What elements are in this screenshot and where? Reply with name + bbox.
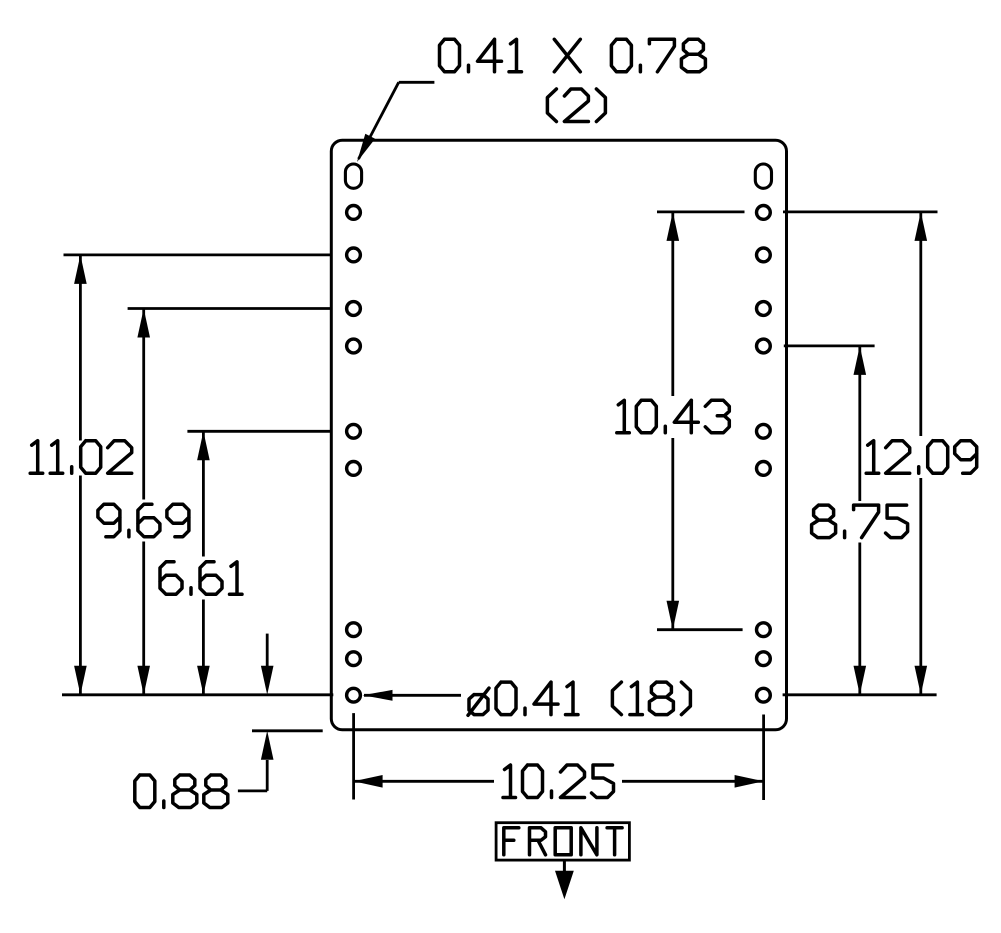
dim 11.02 arrow top — [74, 255, 87, 284]
hole left column row 8 — [347, 652, 361, 666]
extension line right row1 — [657, 210, 745, 213]
dim 9.69 text — [98, 504, 189, 537]
hole left column row 9 — [347, 688, 361, 702]
slot top-left 0.41 X 0.78 — [345, 164, 361, 188]
text 0.41 X 0.78 — [440, 39, 522, 72]
dim 8.75 arrow bottom — [854, 666, 867, 695]
extension line right row4 — [784, 344, 875, 347]
dim 6.61 arrow top — [197, 431, 210, 460]
extension line left row3 — [128, 307, 332, 310]
hole right column row 6 — [757, 462, 771, 476]
hole right column row 8 — [757, 652, 771, 666]
dim 10.43 line — [671, 212, 674, 396]
hole left column row 7 — [347, 623, 361, 637]
dim 12.09 arrow bottom — [915, 666, 928, 695]
dim 10.25 text — [503, 765, 614, 798]
dim 10.43 text — [617, 400, 730, 433]
dim 0.88 arrow lower — [266, 760, 269, 791]
dim 10.25 arrow left — [354, 775, 383, 788]
text dia 0.41 (18) — [468, 682, 578, 715]
FRONT box — [496, 823, 629, 860]
dim 10.25 line — [354, 780, 494, 783]
hole right column row 1 — [757, 206, 771, 220]
extension line 10.25 left — [352, 713, 355, 799]
hole right column row 5 — [757, 424, 771, 438]
hole left column row 4 — [347, 339, 361, 353]
dim 11.02 line — [79, 255, 82, 441]
dim 0.88 text — [135, 775, 228, 808]
dim 8.75 text — [812, 505, 908, 537]
dim 8.75 arrow top — [854, 346, 867, 375]
dim 6.61 text — [160, 562, 242, 595]
dim 10.43 arrow top — [667, 212, 680, 241]
hole right column row 4 — [757, 339, 771, 353]
hole left column row 2 — [347, 248, 361, 262]
dim 8.75 line — [858, 346, 861, 501]
hole left column row 6 — [347, 462, 361, 476]
hole right column row 3 — [757, 302, 771, 316]
dim 9.69 arrow bottom — [137, 666, 150, 695]
dim 9.69 arrow top — [137, 309, 150, 338]
FRONT arrow — [563, 860, 566, 872]
extension line 10.25 right — [762, 715, 765, 801]
extension line right bottom — [783, 693, 937, 696]
leader slot callout — [399, 81, 435, 84]
dim 10.43 arrow bottom — [667, 601, 680, 630]
hole right column row 2 — [757, 248, 771, 262]
hole right column row 9 — [757, 688, 771, 702]
hole right column row 7 — [757, 623, 771, 637]
extension line left row5 — [187, 430, 331, 433]
text (2) — [547, 89, 605, 122]
dim 12.09 line — [919, 212, 922, 436]
dim 0.88 leader — [238, 790, 267, 793]
dim 9.69 line — [142, 309, 145, 500]
extension line plate bottom left — [252, 729, 323, 732]
hole left column row 3 — [347, 302, 361, 316]
extension line left baseline — [62, 693, 333, 696]
dim 11.02 arrow bottom — [74, 666, 87, 695]
hole left column row 5 — [347, 424, 361, 438]
hole left column row 1 — [347, 206, 361, 220]
dim 12.09 arrow top — [915, 212, 928, 241]
dim 6.61 arrow bottom — [197, 666, 210, 695]
dim 6.61 line — [202, 431, 205, 556]
dim 10.25 arrow right — [735, 775, 764, 788]
slot top-right 0.41 X 0.78 — [755, 164, 771, 188]
dim 12.09 text — [866, 441, 977, 474]
extension line right row7 — [657, 628, 743, 631]
dim 11.02 text — [30, 441, 132, 474]
FRONT text — [504, 828, 622, 855]
dim 0.88 arrow upper — [266, 634, 269, 666]
leader hole callout — [364, 694, 461, 697]
plate outline — [331, 140, 786, 730]
extension line left row2 — [64, 253, 332, 256]
